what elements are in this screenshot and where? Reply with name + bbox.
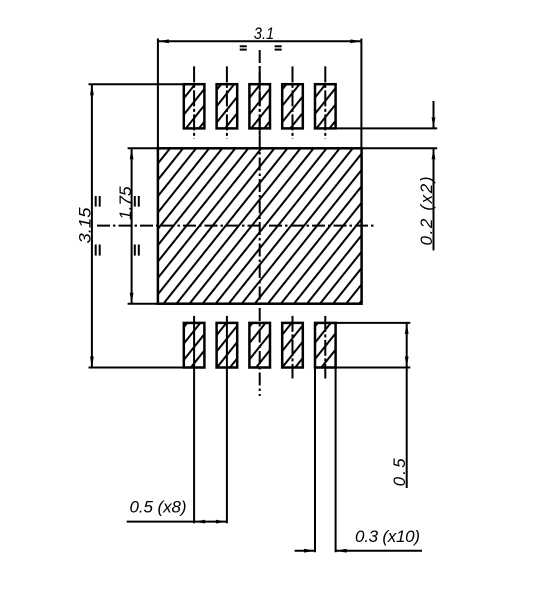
- dim 1.75 line: [131, 148, 133, 303]
- pad P1 top: [184, 84, 205, 128]
- svg-text:0.5: 0.5: [390, 458, 409, 487]
- equals mark 1.75 upper: [135, 196, 139, 207]
- arrow 0.3 right: [336, 549, 347, 553]
- dim 0.5 right extension bottom: [336, 367, 411, 369]
- pin centerline top pad4: [292, 66, 294, 138]
- pad P5 top: [315, 84, 336, 128]
- svg-text:0.2 (x2): 0.2 (x2): [417, 177, 436, 246]
- dim 1.75 extension top: [128, 147, 158, 149]
- equals mark top right of centerline: [275, 46, 282, 49]
- arrow 1.75 top: [130, 148, 134, 159]
- pin centerline bottom pad1 extended: [193, 316, 195, 523]
- package body outline (hatched): [158, 148, 362, 303]
- pin centerline top pad5: [324, 66, 326, 138]
- arrow 0.2 up: [432, 148, 436, 159]
- pad P10 edge extension left: [314, 368, 316, 553]
- arrow 0.5 right top: [405, 323, 409, 334]
- pad P3 top: [249, 84, 270, 128]
- arrow 0.2 down: [432, 117, 436, 128]
- arrow 1.75 bottom: [130, 293, 134, 304]
- dim 0.3 (x10) line left: [295, 550, 315, 552]
- dim 0.5 right extension top: [336, 322, 411, 324]
- dim 3.15 line: [91, 84, 93, 368]
- pin centerline bottom pad4: [292, 316, 294, 379]
- pad P8 bottom: [249, 323, 270, 368]
- equals mark 1.75 lower: [135, 245, 139, 256]
- pin centerline top pad3: [259, 66, 261, 138]
- dim 0.3 (x10) line right: [336, 550, 422, 552]
- svg-text:0.3 (x10): 0.3 (x10): [355, 527, 420, 546]
- arrow 3.15 bottom: [90, 357, 94, 368]
- dim 3.1 extension left: [157, 39, 159, 149]
- dim 0.2 extension upper (pad bottom level): [336, 127, 438, 129]
- vertical centerline (dash-dot): [259, 50, 261, 396]
- equals mark top left of centerline: [240, 46, 247, 49]
- svg-text:1.75: 1.75: [116, 186, 135, 220]
- pad P10 bottom: [315, 323, 336, 368]
- pad P7 bottom: [217, 323, 238, 368]
- arrow 3.1 left: [158, 39, 169, 43]
- dim 0.2 extension lower (body top level): [362, 147, 438, 149]
- dim 0.5 (x8) line: [127, 521, 227, 523]
- dim 0.2 line upper: [433, 101, 435, 128]
- dim 1.75 extension bottom: [128, 303, 158, 305]
- svg-text:3.1: 3.1: [254, 24, 275, 43]
- pad P10 edge extension right: [335, 368, 337, 553]
- svg-text:0.5 (x8): 0.5 (x8): [130, 498, 187, 517]
- arrow 0.5x8 right: [216, 520, 227, 524]
- arrow 0.5x8 left: [194, 520, 205, 524]
- equals mark 3.15 upper: [96, 196, 100, 207]
- horizontal centerline (dash-dot): [97, 225, 374, 227]
- arrow 3.1 right: [350, 39, 361, 43]
- pin centerline bottom pad2 extended: [226, 316, 228, 523]
- dim 3.1 line: [158, 40, 362, 42]
- dim 0.5 right line: [406, 323, 408, 488]
- svg-text:3.15: 3.15: [76, 207, 95, 244]
- pin centerline top pad2: [226, 66, 228, 138]
- equals mark 3.15 lower: [96, 245, 100, 256]
- dim 3.15 extension top: [89, 83, 184, 85]
- pad P2 top: [217, 84, 238, 128]
- dim 3.15 extension bottom: [89, 367, 184, 369]
- dim 3.1 extension right: [360, 39, 362, 149]
- arrow 3.15 top: [90, 84, 94, 95]
- dim 0.2 line lower tail: [433, 148, 435, 250]
- pin centerline top pad1: [193, 66, 195, 138]
- pin centerline bottom pad5: [324, 316, 326, 379]
- arrow 0.5 right bottom: [405, 357, 409, 368]
- pad P6 bottom: [184, 323, 205, 368]
- pad P4 top: [282, 84, 303, 128]
- pad P9 bottom: [282, 323, 303, 368]
- arrow 0.3 left: [304, 549, 315, 553]
